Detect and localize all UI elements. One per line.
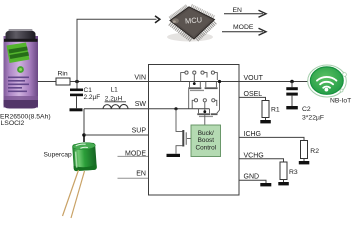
ground under C2 [286,106,298,109]
inductor L1 [84,104,149,108]
wire M1 to SW rail [188,89,190,109]
supercap C_sc [72,142,97,171]
EN arrow from MCU [224,13,263,15]
svg-text:3*22µF: 3*22µF [302,114,324,121]
svg-text:MCU: MCU [185,15,203,25]
wire ICHG to R2 [239,137,304,140]
svg-text:R3: R3 [289,169,298,176]
svg-text:LSOCl2: LSOCl2 [1,120,25,127]
supercap leads [63,170,85,218]
node VOUT junction [290,80,294,84]
capacitor C2 [286,82,298,107]
svg-text:OSEL: OSEL [244,91,263,98]
battery BT1 ER26500 [4,29,39,109]
svg-text:EN: EN [136,171,146,178]
transistor M4 [211,113,218,115]
MODE arrow from MCU [222,31,263,33]
svg-text:GND: GND [244,173,260,180]
MCU U2 [167,4,216,41]
internal FET pair M3/M4 gate terminals [192,99,217,112]
ground under R2 [299,161,310,164]
svg-text:EN: EN [233,7,243,14]
svg-text:VCHG: VCHG [244,152,264,159]
ground under GND pin [260,183,271,186]
SW internal rail [149,108,210,110]
svg-text:Control: Control [195,145,216,152]
wire node A up to MCU [77,19,157,81]
wire control box to bridge [204,115,206,125]
wire SW corner down to SUP node [83,109,85,135]
ground under R1 [260,120,271,123]
wire GND pin [239,180,266,183]
MODE pin stub [118,155,149,157]
svg-text:Rin: Rin [58,70,68,77]
wire VCHG to R3 [239,159,284,162]
transistor M5 with drain from SW node [176,109,191,154]
svg-text:C2: C2 [302,106,311,113]
internal FET pair M1/M2 gate terminals [181,71,218,83]
svg-text:R2: R2 [310,148,319,155]
resistor Rin [56,78,70,85]
IC U1 buck/boost converter box [149,65,240,196]
wire OSEL to R1 [239,97,266,100]
svg-text:Buck/: Buck/ [198,130,214,137]
svg-text:MODE: MODE [125,151,146,158]
arrow into MCU [155,16,160,23]
ground under C1 [70,108,83,111]
wire VOUT rail down to M4 [217,82,220,114]
svg-text:2.2µF: 2.2µF [84,94,101,101]
EN pin stub [118,177,149,179]
svg-text:NB-IoT: NB-IoT [330,98,351,105]
resistor R1 [262,101,269,118]
resistor R3 [280,162,287,180]
wire SUP to IC [84,134,149,136]
svg-text:2.2µH: 2.2µH [105,95,123,102]
svg-text:VOUT: VOUT [244,75,264,82]
supercap lead stub [83,135,85,142]
transistor M3 [197,109,213,117]
transistor M1 [188,82,204,92]
node A junction [75,80,79,84]
wire Rin to node A [70,81,149,83]
capacitor C1 [70,82,83,109]
svg-text:R1: R1 [271,107,280,114]
svg-text:MODE: MODE [233,24,254,31]
resistor R2 [301,141,308,159]
antenna NB-IoT icon [308,65,347,97]
svg-text:SW: SW [135,101,147,108]
svg-text:L1: L1 [111,87,119,94]
ground under R3 [278,182,289,185]
svg-text:Supercap: Supercap [44,152,73,159]
wire battery to Rin [38,81,57,83]
svg-text:SUP: SUP [132,127,147,134]
ground inside IC [167,154,181,157]
svg-text:VIN: VIN [134,75,146,82]
node SUP junction [82,133,86,137]
wire VOUT to antenna [239,81,309,83]
internal VIN-VOUT rail [149,81,240,83]
svg-text:Boost: Boost [198,137,215,144]
Buck/Boost control block [191,125,221,157]
transistor M2 [205,82,218,90]
node SW junction [174,107,177,110]
